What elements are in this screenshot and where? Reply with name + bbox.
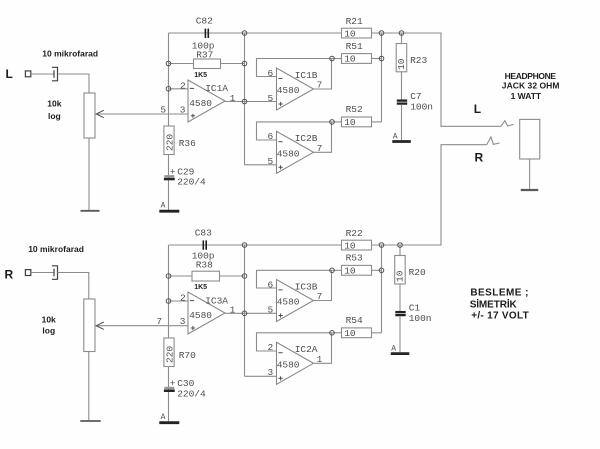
svg-text:R52: R52 [346, 104, 363, 115]
wire R21-R51-R52 right vertical [381, 33, 383, 122]
jack sleeve foot [521, 189, 539, 191]
op-amp IC2B [277, 131, 314, 173]
minus sign IC1A [190, 87, 194, 89]
junction (R53 right) [379, 268, 384, 273]
svg-text:IC2B: IC2B [295, 133, 318, 144]
svg-text:4580: 4580 [277, 359, 300, 370]
svg-text:100n: 100n [410, 101, 433, 112]
wire pot bottom to ground [88, 352, 90, 421]
wire R output to jack [400, 145, 487, 245]
svg-text:4580: 4580 [189, 310, 212, 321]
svg-text:R51: R51 [346, 41, 363, 52]
op-amp IC3B [277, 280, 314, 322]
wire C83 row [169, 244, 342, 246]
wire IC1A pin2 [169, 88, 189, 90]
junction (IC3A pin2) [166, 299, 171, 304]
ground (C30) [159, 421, 179, 424]
junction (R51 right) [379, 56, 384, 61]
connector pad R input [25, 270, 30, 276]
svg-text:R38: R38 [196, 259, 213, 270]
junction (R38 right) [242, 274, 247, 279]
svg-text:IC3B: IC3B [295, 281, 318, 292]
junction (IC1A output / IC1B pin5) [242, 99, 247, 104]
svg-text:2: 2 [180, 293, 186, 304]
svg-text:10k: 10k [42, 315, 56, 325]
plus sign IC3B [279, 313, 283, 317]
resistor R36 body [164, 126, 174, 155]
wire feedback-left vertical (C83/R38/pin2/R70 net) [168, 245, 170, 421]
wire R37 right [221, 63, 245, 65]
wire C7 to ground [401, 105, 403, 141]
wire R20 to C1 [399, 284, 401, 311]
svg-text:220: 220 [165, 346, 176, 363]
svg-text:4580: 4580 [277, 148, 300, 159]
connector pad L input [25, 71, 30, 77]
svg-text:R36: R36 [179, 138, 196, 149]
resistor R52 body [342, 117, 372, 127]
svg-text:100n: 100n [409, 313, 432, 324]
svg-text:L: L [6, 67, 13, 81]
resistor R70 body [164, 338, 174, 367]
svg-text:1 WATT: 1 WATT [511, 91, 542, 101]
wire IC3A pin2 [169, 300, 189, 302]
minus sign IC2B [278, 141, 282, 143]
svg-text:7: 7 [156, 316, 162, 327]
svg-text:SİMETRİK: SİMETRİK [470, 297, 518, 310]
wire IC1A output [225, 101, 245, 103]
svg-text:R53: R53 [346, 253, 363, 264]
wire IC2B output to R52 [314, 122, 332, 152]
svg-text:3: 3 [180, 316, 186, 327]
jack R contact spring [487, 137, 500, 145]
svg-text:5: 5 [268, 93, 274, 104]
resistor R20 body [395, 256, 406, 285]
wire R52 left stub [332, 121, 342, 123]
svg-text:R: R [5, 268, 14, 282]
wire IC3B feedback row (R53 left to pin6) [257, 270, 333, 288]
op-amp IC3A [188, 292, 225, 334]
svg-text:log: log [42, 326, 55, 336]
svg-text:JACK 32 OHM: JACK 32 OHM [502, 81, 560, 91]
resistor R54 body [342, 328, 372, 338]
label BESLEME ; SIMETRIK +/- 17 VOLT [470, 287, 529, 321]
wire to IC2B pin5 [245, 164, 277, 166]
wire IC3A output [225, 312, 245, 314]
capacitor C29 plates [164, 176, 175, 179]
wire R51 right [372, 58, 382, 60]
wire feedback-left vertical (C82/R37/pin2/R36 net) [168, 33, 170, 210]
svg-text:4580: 4580 [277, 85, 300, 96]
wire cap to pot top [58, 273, 89, 300]
op-amp IC2A [277, 342, 314, 384]
junction (C83 right / output riser top) [242, 243, 247, 248]
svg-text:10: 10 [344, 28, 356, 39]
resistor R38 body [192, 271, 220, 281]
svg-text:10k: 10k [47, 99, 61, 109]
wire R51 left stub [332, 58, 342, 60]
wire IC2A feedback row (R54 left to pin2) [257, 333, 333, 351]
svg-text:10: 10 [395, 270, 406, 282]
wire IC3B pin5 from output net [245, 312, 277, 314]
junction (IC1A pin2) [166, 87, 171, 92]
wire output net vertical [244, 33, 246, 165]
capacitor C83 plates [203, 240, 206, 249]
svg-text:R54: R54 [346, 315, 363, 326]
svg-text:10: 10 [344, 266, 356, 277]
svg-text:5: 5 [268, 156, 274, 167]
junction (R52 left) [330, 120, 335, 125]
wire pot wiper to IC3A pin3 [96, 325, 188, 327]
svg-text:IC1A: IC1A [205, 83, 228, 94]
wire C1 to ground [399, 316, 401, 352]
svg-text:R21: R21 [346, 16, 363, 27]
svg-text:6: 6 [268, 279, 274, 290]
minus sign IC3A [190, 300, 194, 302]
ground (pot L) [81, 210, 100, 212]
svg-text:IC2A: IC2A [295, 344, 318, 355]
plus sign IC2B [279, 165, 283, 169]
svg-text:+/- 17 VOLT: +/- 17 VOLT [471, 311, 529, 322]
wire IC3B output to R53 [314, 270, 332, 300]
svg-text:5: 5 [160, 104, 166, 115]
svg-text:10: 10 [344, 54, 356, 65]
svg-text:10 mikrofarad: 10 mikrofarad [28, 244, 84, 254]
ground (C29) [159, 210, 179, 213]
capacitor C82 plates [205, 29, 208, 38]
ground (C1) [391, 352, 410, 355]
svg-text:IC3A: IC3A [205, 295, 228, 306]
minus sign IC2A [278, 352, 282, 354]
svg-text:R: R [475, 151, 484, 165]
wire top net C82 row [169, 32, 342, 34]
wire C82 row right of R21 to jack corner [372, 32, 442, 34]
resistor R53 body [342, 265, 372, 275]
plus sign IC1A [191, 114, 195, 118]
junction (R37 right) [242, 61, 247, 66]
junction (R53 left) [330, 268, 335, 273]
wire R53 right [372, 269, 382, 271]
junction (R51 left) [330, 56, 335, 61]
svg-text:C83: C83 [195, 228, 212, 239]
svg-text:IC1B: IC1B [295, 70, 318, 81]
svg-text:220: 220 [165, 134, 176, 151]
svg-text:6: 6 [268, 68, 274, 79]
wire R52 right [372, 121, 382, 123]
op-amp IC1B [277, 68, 314, 110]
resistor R37 body [194, 59, 221, 69]
junction (C82 right / output riser top) [242, 31, 247, 36]
minus sign IC3B [278, 289, 282, 291]
svg-text:R23: R23 [410, 55, 427, 66]
svg-text:10: 10 [344, 328, 356, 339]
junction (R38 left) [166, 274, 171, 279]
potentiometer 10k log (R) body [84, 299, 95, 352]
wire L output to jack [402, 33, 501, 126]
ground (pot R) [80, 420, 101, 422]
wire R38 right [220, 275, 245, 277]
op-amp IC1A [188, 80, 225, 122]
resistor R22 body [342, 240, 372, 250]
resistor R21 body [342, 28, 372, 38]
svg-text:L: L [474, 102, 481, 116]
wire R20 top stub [399, 245, 401, 256]
wire R54 right [372, 332, 382, 334]
pot wiper arrowhead (R) [96, 322, 104, 329]
wire IC1B pin5 from output net [245, 101, 277, 103]
wire R38 left [169, 275, 193, 277]
svg-text:2: 2 [180, 80, 186, 91]
jack L contact spring [501, 121, 514, 127]
junction (R22 right) [379, 243, 384, 248]
wire R54 left stub [332, 332, 342, 334]
svg-text:C82: C82 [196, 15, 213, 26]
junction (R20 top) [398, 243, 403, 248]
svg-text:A: A [161, 202, 166, 211]
junction (R21 right) [379, 31, 384, 36]
svg-text:6: 6 [268, 131, 274, 142]
junction (R54 left) [330, 331, 335, 336]
wire IC2A output to R54 [314, 333, 332, 364]
headphone jack body [520, 119, 540, 159]
wire pot wiper to IC1A pin3 [96, 113, 188, 115]
svg-text:3: 3 [180, 104, 186, 115]
svg-text:R22: R22 [346, 228, 363, 239]
svg-text:1K5: 1K5 [194, 284, 207, 291]
svg-text:4580: 4580 [189, 98, 212, 109]
wire R53 left stub [332, 269, 342, 271]
capacitor 10 mikrofarad (R input, polarized) [52, 266, 58, 280]
capacitor C30 plates [164, 388, 175, 391]
resistor R51 body [342, 54, 372, 64]
svg-text:1K5: 1K5 [194, 72, 207, 79]
wire cap to pot top [58, 74, 90, 93]
plus sign IC3A [191, 326, 195, 330]
wire R23 to C7 [401, 72, 403, 100]
junction (IC3A output / IC3B pin5) [242, 311, 247, 316]
wire IC2B feedback row (R52 left to pin6) [257, 122, 333, 140]
wire L input to C in [31, 73, 54, 75]
label HEADPHONE JACK 32 OHM 1 WATT [502, 71, 560, 101]
pot wiper arrowhead [96, 110, 104, 117]
junction (R37 left) [166, 61, 171, 66]
svg-text:4580: 4580 [277, 297, 300, 308]
ground (C7) [392, 140, 411, 143]
resistor R23 body [396, 44, 407, 72]
wire R23 top stub [401, 33, 403, 44]
wire IC1B output to R51 [314, 59, 332, 90]
wire R22-R53-R54 right vertical [381, 245, 383, 333]
svg-text:1: 1 [230, 93, 236, 104]
plus sign IC1B [279, 102, 283, 106]
capacitor C7 plates [397, 101, 407, 104]
svg-text:10 mikrofarad: 10 mikrofarad [42, 49, 98, 59]
svg-text:3: 3 [268, 367, 274, 378]
svg-text:log: log [48, 111, 61, 121]
svg-text:R70: R70 [179, 350, 196, 361]
svg-text:HEADPHONE: HEADPHONE [505, 71, 557, 81]
jack sleeve stem [529, 159, 531, 189]
svg-text:10: 10 [396, 58, 407, 70]
wire output net vertical (R channel) [244, 245, 246, 376]
svg-text:10: 10 [344, 240, 356, 251]
plus sign IC2A [279, 376, 283, 380]
wire to IC2A pin3 [245, 375, 277, 377]
svg-text:220/4: 220/4 [177, 388, 206, 399]
svg-text:A: A [161, 413, 166, 422]
svg-text:220/4: 220/4 [177, 177, 206, 188]
svg-text:2: 2 [268, 342, 274, 353]
minus sign IC1B [278, 77, 282, 79]
svg-text:10: 10 [344, 117, 356, 128]
wire IC1B feedback row (R51 left to pin6) [257, 59, 333, 77]
svg-text:BESLEME ;: BESLEME ; [470, 287, 529, 298]
potentiometer 10k log (L) body [84, 93, 95, 138]
svg-text:1: 1 [230, 305, 236, 316]
junction (R23 top) [399, 31, 404, 36]
wire pot bottom to ground [88, 138, 90, 210]
wire C83 row right of R22 to jack riser [372, 244, 442, 246]
wire R input to cap [31, 272, 54, 274]
wire R37 left [169, 63, 194, 65]
svg-text:R20: R20 [409, 267, 426, 278]
capacitor 10 mikrofarad (L input, polarized) [52, 67, 58, 81]
capacitor C1 plates [395, 312, 405, 315]
